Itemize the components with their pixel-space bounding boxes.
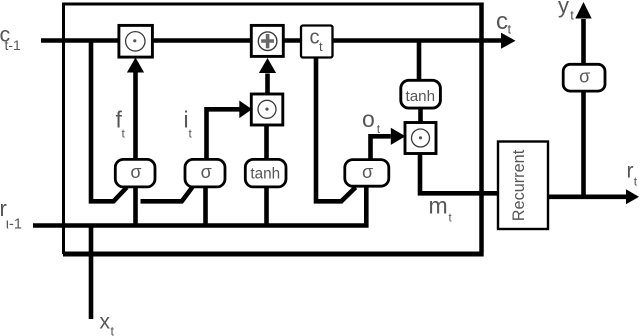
svg-text:σ: σ [362,162,373,182]
svg-text:x: x [100,311,111,334]
svg-text:σ: σ [130,162,141,182]
svg-text:tanh: tanh [250,165,280,182]
svg-text:t: t [319,39,323,54]
svg-text:Recurrent: Recurrent [510,149,528,221]
svg-text:σ: σ [201,162,212,182]
svg-text:σ: σ [579,67,590,87]
svg-text:o: o [362,106,375,132]
svg-text:r: r [627,160,634,183]
svg-text:t: t [570,8,574,23]
svg-text:t: t [111,325,115,336]
svg-text:tanh: tanh [406,88,436,105]
svg-text:y: y [558,0,569,18]
svg-text:ι-1: ι-1 [6,217,22,233]
svg-text:t: t [508,22,512,37]
svg-text:c: c [310,27,320,49]
svg-text:t-1: t-1 [5,37,22,53]
svg-text:c: c [496,8,508,35]
svg-text:m: m [429,193,448,219]
